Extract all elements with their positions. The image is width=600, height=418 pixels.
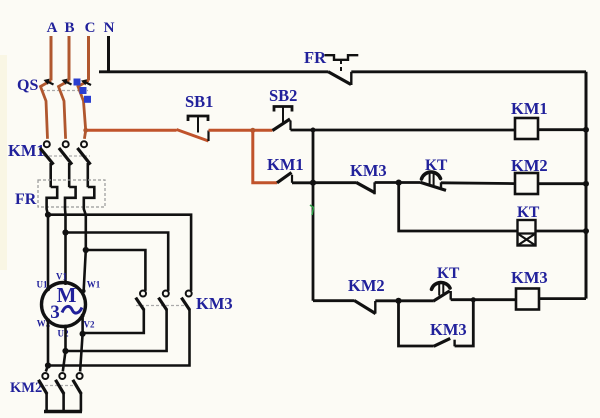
motor label tilde bbox=[62, 306, 82, 313]
relay KT coil box bbox=[518, 220, 536, 246]
svg-text:FR: FR bbox=[304, 48, 327, 67]
svg-text:KM2: KM2 bbox=[10, 380, 42, 396]
svg-text:V1: V1 bbox=[56, 272, 67, 282]
button SB2 blade bbox=[273, 119, 291, 131]
thermal relay FR heater 1 bbox=[47, 187, 58, 289]
junction dot line2 bbox=[62, 229, 68, 235]
wire row3 left bbox=[313, 181, 356, 184]
contactor KM3 linkage dashed bbox=[136, 305, 188, 307]
junction dot line3 bbox=[83, 247, 89, 253]
wire motor W2 down bbox=[46, 320, 48, 371]
contactor KM3 pole 1 bbox=[140, 291, 146, 297]
contactor KM1 main pole 2 bbox=[63, 141, 69, 147]
svg-text:FR: FR bbox=[15, 191, 37, 208]
wire phase A top bbox=[50, 36, 53, 81]
junction node C-phase tap bbox=[83, 128, 88, 133]
junction dot row4 bbox=[395, 298, 401, 304]
svg-text:SB1: SB1 bbox=[185, 92, 213, 111]
contact KM2 NC blade bbox=[354, 300, 376, 313]
button SB1 blade bbox=[177, 130, 209, 142]
wire SB1 to SB2 bbox=[209, 129, 273, 132]
contact KM1 aux post bbox=[291, 175, 293, 183]
svg-text:KM3: KM3 bbox=[430, 320, 467, 339]
wire bypass line3 to KM3 pole1 bbox=[86, 250, 146, 291]
svg-text:U2: U2 bbox=[58, 329, 69, 339]
contactor KM2 pole 1 bbox=[42, 373, 48, 379]
junction dot branch right bbox=[471, 297, 476, 302]
switch QS selection handle 1 bbox=[74, 79, 81, 86]
svg-text:V2: V2 bbox=[84, 320, 95, 330]
wire KT NC to KM2 coil bbox=[441, 181, 515, 185]
svg-text:QS: QS bbox=[17, 77, 38, 94]
svg-text:KM3: KM3 bbox=[196, 294, 233, 313]
wire KM1 aux to rail-left bbox=[292, 181, 313, 184]
contact KT NO post bbox=[450, 291, 452, 300]
motor M1 circle bbox=[42, 283, 86, 327]
contactor KM3 coil bbox=[516, 289, 539, 310]
svg-text:W1: W1 bbox=[87, 280, 101, 290]
contactor KM3 pole 2 bbox=[163, 291, 169, 297]
junction dot KT branch bbox=[396, 180, 402, 186]
wire neutral N vertical bbox=[107, 36, 110, 72]
switch QS pole B blade bbox=[59, 81, 70, 139]
junction dot W2 bbox=[45, 362, 51, 368]
contact KT NC post bbox=[440, 182, 442, 188]
junction dot V2 bbox=[80, 331, 86, 337]
svg-text:KM3: KM3 bbox=[511, 268, 548, 287]
star point bar bbox=[44, 410, 82, 414]
switch QS pole C blade bbox=[78, 81, 89, 139]
FR contact actuator bbox=[325, 55, 359, 60]
svg-text:N: N bbox=[104, 20, 115, 36]
contactor KM3 pole 3 bbox=[186, 291, 192, 297]
wire SB2 to KM1 coil bbox=[291, 129, 516, 132]
svg-text:KM1: KM1 bbox=[8, 141, 45, 160]
junction dot U2 bbox=[62, 348, 68, 354]
thermal relay FR heater 3 bbox=[84, 187, 95, 292]
switch QS selection handle 2 bbox=[80, 87, 87, 94]
button SB2 post bbox=[289, 121, 291, 131]
thermal relay FR dashed box bbox=[38, 180, 105, 207]
contact KM1 aux blade bbox=[277, 173, 292, 183]
contact KT NC arc bbox=[422, 172, 441, 179]
switch QS selection handle 3 bbox=[84, 96, 91, 103]
contact KM3 NC post bbox=[373, 182, 375, 194]
green mark bbox=[310, 205, 314, 215]
junction dot line1 bbox=[45, 212, 51, 218]
contact KM3 aux blade bbox=[434, 338, 451, 346]
switch QS pole C arrow bbox=[85, 82, 92, 85]
contact KT NC blade bbox=[421, 182, 447, 190]
wire KM1 aux branch (orange) bbox=[253, 130, 277, 183]
svg-text:C: C bbox=[85, 20, 96, 36]
wire bypass line2 to KM3 pole2 bbox=[66, 233, 169, 291]
svg-text:A: A bbox=[47, 20, 58, 36]
contact KT NC stems bbox=[430, 174, 434, 186]
contactor KM2 pole 3 bbox=[77, 373, 83, 379]
thermal relay FR heater 2 bbox=[65, 187, 76, 283]
contactor KM1 main pole 3 bbox=[81, 141, 87, 147]
wire KM3NC to KT bbox=[375, 181, 421, 184]
contactor KM2 pole 2 bbox=[59, 373, 65, 379]
svg-text:3: 3 bbox=[50, 302, 60, 323]
svg-text:KT: KT bbox=[437, 265, 460, 282]
wire motor U2 down bbox=[63, 327, 66, 372]
contact KT NO blade bbox=[433, 291, 450, 302]
svg-text:KT: KT bbox=[517, 204, 540, 221]
contactor KM2 coil bbox=[515, 173, 538, 194]
FR contact blade bbox=[328, 72, 351, 85]
contact KT NO arc bbox=[432, 283, 451, 290]
junction dot orange bbox=[250, 128, 255, 133]
wire KM3 aux right bbox=[455, 300, 474, 346]
switch QS pole A blade bbox=[41, 81, 52, 139]
switch QS pole B arrow bbox=[65, 81, 72, 84]
contact KM3 aux post bbox=[453, 340, 455, 347]
svg-text:KM2: KM2 bbox=[348, 276, 385, 295]
wire row1 right bbox=[351, 70, 586, 73]
wire KM1 coil to rail bbox=[538, 128, 586, 131]
contact KM2 NC post bbox=[374, 301, 376, 314]
wire KM3 coil to rail bbox=[539, 297, 586, 300]
wire KT coil to rail bbox=[536, 230, 587, 233]
button SB1 post bbox=[207, 131, 209, 142]
wire KM2NC to dot bbox=[375, 299, 433, 302]
wire row4 left bbox=[313, 299, 354, 302]
wire control tap (row2 orange) bbox=[86, 129, 177, 132]
svg-text:SB2: SB2 bbox=[269, 86, 297, 105]
svg-text:U1: U1 bbox=[37, 280, 48, 290]
button SB1 cap bbox=[188, 116, 208, 121]
wire KT NO to KM3 coil bbox=[451, 298, 516, 301]
wire KM2 coil to rail bbox=[538, 182, 586, 185]
switch QS pole A arrow bbox=[47, 81, 54, 84]
svg-text:B: B bbox=[64, 20, 74, 36]
button SB1 stem bbox=[197, 117, 199, 133]
svg-text:KM1: KM1 bbox=[267, 155, 304, 174]
wire motor V2 down bbox=[80, 316, 83, 372]
junction dot row2/rail-left bbox=[311, 128, 316, 133]
wire N row (row1) bbox=[99, 70, 328, 73]
left rail vertical bbox=[312, 130, 315, 301]
wire bypass line1 to KM3 pole3 bbox=[48, 215, 191, 291]
wire phase C top bbox=[87, 36, 90, 81]
contactor KM1 coil bbox=[515, 118, 538, 139]
right rail bbox=[585, 72, 588, 299]
wire KT coil branch bbox=[399, 183, 518, 231]
switch QS linkage dashed bbox=[42, 90, 88, 92]
svg-text:KM1: KM1 bbox=[511, 99, 548, 118]
contactor KM1 main pole 1 bbox=[44, 141, 50, 147]
junction dot row3 bbox=[310, 180, 316, 186]
svg-text:KM3: KM3 bbox=[350, 161, 387, 180]
parallel branch KM3 aux bbox=[399, 301, 434, 346]
contactor KM2 linkage dashed bbox=[40, 385, 80, 387]
button SB2 stem bbox=[282, 108, 284, 123]
contact KM3 NC blade bbox=[356, 182, 375, 193]
button SB2 cap bbox=[274, 107, 292, 112]
motor terminal dots bbox=[46, 287, 50, 291]
wire phase B top bbox=[68, 36, 71, 81]
contact KT NO stems bbox=[439, 284, 443, 296]
contactor KM1 main linkage dashed bbox=[44, 155, 90, 157]
FR contact post bbox=[350, 72, 352, 85]
